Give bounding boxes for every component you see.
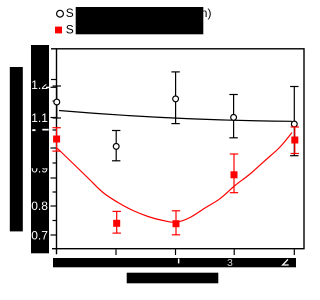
red error bar point5: [291, 127, 299, 154]
svg-text:S: S: [66, 6, 74, 20]
y minor ticks: [53, 100, 57, 102]
svg-text:0.7: 0.7: [31, 229, 48, 243]
inverted long-tick stub at y=87 inside bar: [46, 87, 49, 89]
error bar series1 point4: [229, 95, 237, 138]
y major ticks: [51, 86, 57, 88]
y tick label redaction box: [31, 45, 49, 253]
y label 0.8 (inverted white, slight top clip): [31, 199, 48, 213]
error bar series1 point3: [171, 72, 179, 124]
error bar series1 point5: [290, 87, 298, 156]
red error bar point3: [172, 211, 180, 235]
legend redaction box: [76, 7, 204, 34]
bottom-left corner ticks: [52, 248, 57, 250]
red error bar point4: [230, 154, 238, 193]
red error bar point1: [52, 128, 60, 151]
circle marker point4: [231, 115, 237, 121]
x-axis title redaction box: [127, 273, 219, 284]
legend marker square (series 2): [55, 27, 62, 34]
svg-text:1.1: 1.1: [31, 111, 48, 125]
circle marker point3: [173, 96, 179, 102]
svg-text:1.: 1.: [31, 78, 41, 92]
red square point4: [231, 171, 238, 178]
x ticks: [115, 249, 117, 255]
red square point2: [113, 220, 120, 227]
error bar series1 point1: [53, 86, 61, 118]
circle marker point2: [113, 144, 119, 150]
legend marker circle (series 1): [57, 10, 64, 17]
y label fragment near y=130 (inverted): [42, 129, 48, 131]
x label 2 fragment (inverted white stem): [178, 259, 180, 264]
x label 4 fragment (inverted white): [283, 259, 289, 265]
y label 0.9 (inverted white, only bottom band): [31, 161, 48, 175]
black fit line (series 1): [59, 111, 292, 122]
svg-text:3: 3: [227, 257, 233, 269]
error bar series1 point2: [112, 131, 120, 161]
red error bar point2: [113, 211, 121, 233]
circle marker point1: [54, 99, 60, 105]
red square point5: [291, 137, 298, 144]
red square point3: [173, 220, 180, 227]
red square point1: [53, 136, 60, 143]
svg-text:S: S: [66, 22, 74, 36]
red fit curve (series 2): [57, 133, 292, 223]
circle marker point5: [291, 121, 297, 127]
top-left corner tick: [51, 48, 57, 50]
plot frame: [57, 49, 305, 249]
x tick label redaction box: [53, 258, 296, 267]
y-axis title redaction box: [10, 67, 23, 231]
